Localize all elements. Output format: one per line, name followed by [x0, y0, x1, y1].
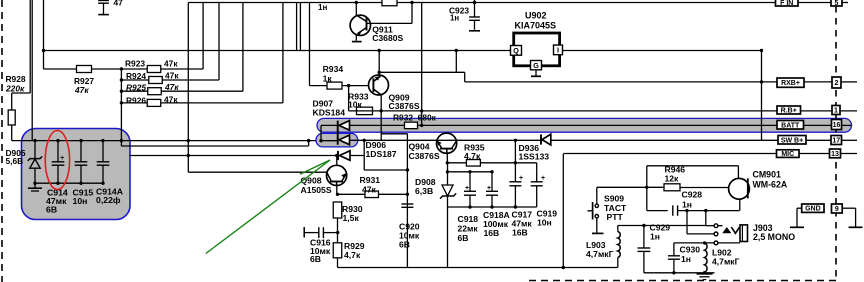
- svg-text:WM-62A: WM-62A: [753, 180, 788, 190]
- svg-text:+: +: [60, 153, 65, 162]
- svg-text:4,7к: 4,7к: [344, 250, 361, 260]
- svg-text:220к: 220к: [5, 84, 25, 94]
- svg-text:R924: R924: [126, 71, 146, 81]
- svg-text:4,7к: 4,7к: [464, 151, 481, 161]
- svg-text:R925: R925: [126, 83, 146, 93]
- svg-text:1н: 1н: [318, 3, 327, 12]
- svg-text:47: 47: [114, 0, 124, 8]
- svg-text:R926: R926: [126, 96, 146, 106]
- svg-text:C3876S: C3876S: [409, 151, 440, 161]
- svg-text:1DS187: 1DS187: [366, 149, 397, 159]
- svg-text:12к: 12к: [665, 174, 680, 184]
- svg-text:R928: R928: [6, 74, 26, 84]
- svg-text:6В: 6В: [46, 205, 57, 215]
- svg-text:A1505S: A1505S: [301, 185, 332, 195]
- svg-text:SW B+: SW B+: [781, 137, 803, 144]
- svg-text:16: 16: [833, 122, 841, 129]
- svg-text:47к: 47к: [164, 95, 178, 105]
- svg-text:6В: 6В: [458, 233, 469, 243]
- svg-text:6В: 6В: [399, 240, 410, 250]
- svg-text:10н: 10н: [537, 218, 552, 228]
- svg-text:I: I: [557, 46, 559, 55]
- svg-text:KIA7045S: KIA7045S: [515, 20, 557, 30]
- svg-text:R932 680к: R932 680к: [393, 113, 437, 123]
- svg-text:F IN: F IN: [780, 0, 793, 7]
- svg-text:RXB+: RXB+: [781, 80, 800, 87]
- svg-text:1н: 1н: [681, 254, 691, 264]
- svg-text:2,5 MONO: 2,5 MONO: [753, 232, 795, 242]
- svg-text:22мк: 22мк: [458, 224, 479, 234]
- svg-text:R.B+: R.B+: [781, 108, 797, 115]
- svg-text:5: 5: [835, 0, 839, 7]
- svg-text:C928: C928: [682, 190, 703, 200]
- svg-text:6,3В: 6,3В: [415, 186, 433, 196]
- svg-text:16В: 16В: [512, 228, 528, 238]
- svg-text:17: 17: [832, 138, 840, 145]
- svg-text:0,22ф: 0,22ф: [96, 195, 121, 205]
- svg-text:1к: 1к: [323, 74, 333, 84]
- svg-text:16В: 16В: [484, 228, 500, 238]
- svg-text:5,6В: 5,6В: [6, 156, 24, 166]
- svg-text:Q904: Q904: [409, 142, 430, 152]
- svg-text:4,7мкГ: 4,7мкГ: [586, 249, 614, 259]
- svg-text:+: +: [465, 185, 469, 192]
- svg-text:MIC: MIC: [781, 151, 794, 158]
- svg-text:R923: R923: [125, 59, 145, 69]
- svg-text:KDS184: KDS184: [313, 107, 346, 117]
- svg-text:C918: C918: [458, 214, 479, 224]
- svg-text:PTT: PTT: [607, 212, 624, 222]
- svg-text:BATT: BATT: [781, 122, 800, 129]
- svg-text:4,7мкГ: 4,7мкГ: [712, 257, 740, 267]
- svg-text:+: +: [519, 175, 523, 182]
- svg-text:C3876S: C3876S: [389, 101, 420, 111]
- svg-text:R931: R931: [360, 175, 381, 185]
- svg-text:6В: 6В: [310, 254, 321, 264]
- svg-text:1н: 1н: [682, 200, 692, 210]
- svg-text:13: 13: [831, 151, 839, 158]
- svg-text:R934: R934: [323, 64, 344, 74]
- svg-text:1,5к: 1,5к: [343, 213, 360, 223]
- svg-text:1н: 1н: [650, 232, 660, 242]
- svg-text:2: 2: [835, 80, 839, 87]
- svg-text:47к: 47к: [362, 185, 377, 195]
- svg-text:47к: 47к: [74, 85, 89, 95]
- svg-text:Q: Q: [513, 46, 519, 55]
- svg-text:1: 1: [834, 108, 838, 115]
- svg-text:+: +: [541, 175, 545, 182]
- svg-text:9: 9: [835, 206, 839, 213]
- svg-text:1SS133: 1SS133: [519, 152, 550, 162]
- svg-text:G: G: [533, 61, 539, 70]
- svg-text:GND: GND: [805, 206, 821, 213]
- svg-text:U902: U902: [525, 11, 547, 21]
- svg-text:+: +: [487, 185, 491, 192]
- svg-text:10н: 10н: [73, 196, 88, 206]
- svg-text:CM901: CM901: [753, 170, 781, 180]
- svg-text:47к: 47к: [164, 59, 178, 69]
- svg-text:1н: 1н: [450, 14, 459, 23]
- svg-text:47к: 47к: [164, 82, 179, 92]
- svg-text:47к: 47к: [165, 71, 179, 81]
- svg-text:C930: C930: [680, 245, 701, 255]
- svg-text:C3680S: C3680S: [372, 33, 403, 43]
